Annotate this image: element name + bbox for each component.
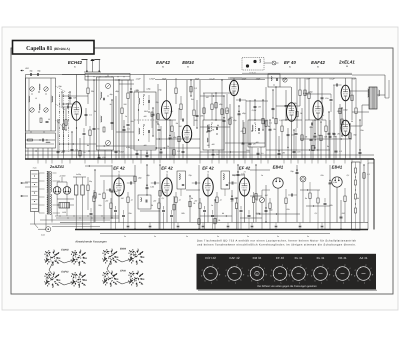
- wire rail y152: [200, 151, 250, 153]
- wire drop e x161: [160, 126, 162, 159]
- wire rail y143: [225, 142, 265, 144]
- svg-text:1M: 1M: [265, 194, 268, 197]
- svg-text:460: 460: [256, 141, 259, 144]
- wire rail y132: [116, 131, 134, 133]
- transformer bottom leads: [45, 215, 47, 230]
- wire rail y96: [62, 95, 88, 97]
- wire drop e x243: [242, 120, 244, 159]
- capacitor EF40 cathode: [295, 133, 298, 135]
- bus lower: [100, 233, 330, 235]
- svg-text:s: s: [299, 281, 300, 284]
- svg-text:0,5M: 0,5M: [252, 109, 257, 112]
- pickup jack: [272, 61, 276, 65]
- resistor EAF42 II anode: [308, 93, 310, 99]
- screen cap b2-1: [122, 215, 125, 217]
- wire rail b2 y190: [300, 189, 320, 191]
- wire drop x70: [69, 92, 71, 104]
- wire rail b2 y218: [240, 217, 262, 219]
- input filter: [103, 193, 105, 199]
- resistor EAF42 anode: [175, 88, 177, 94]
- IF transformer box 1: [134, 92, 156, 150]
- wire rail b2 y166: [85, 165, 112, 167]
- svg-text:2M: 2M: [336, 133, 340, 136]
- svg-text:1M: 1M: [176, 122, 179, 125]
- svg-text:1250: 1250: [62, 211, 66, 214]
- wave switch box: [26, 133, 56, 148]
- svg-text:und keinen Tonabnehmer einschl: und keinen Tonabnehmer einschließlich Ko…: [197, 244, 356, 247]
- tube layout black panel: [197, 254, 377, 290]
- wires rectifier: [57, 181, 67, 183]
- wire drop e x147: [146, 150, 148, 159]
- svg-text:k: k: [327, 279, 328, 282]
- wire drop b2 x256: [255, 165, 257, 222]
- wire drop e x336: [335, 136, 337, 159]
- svg-text:2M: 2M: [272, 128, 276, 131]
- svg-text:h: h: [205, 280, 206, 283]
- svg-text:EF 42: EF 42: [202, 166, 214, 171]
- svg-text:s: s: [235, 281, 236, 284]
- wire drop e x58: [57, 120, 59, 159]
- capacitor cathode b2-2: [162, 210, 165, 212]
- svg-text:0,1: 0,1: [315, 212, 318, 215]
- wire top rail A: [62, 74, 242, 76]
- svg-text:k: k: [305, 279, 306, 282]
- svg-text:40p: 40p: [110, 93, 113, 96]
- grid caps band2: [130, 182, 132, 185]
- wire drop x329: [328, 112, 330, 159]
- bus secondary: [60, 222, 368, 224]
- wire drop x276: [275, 87, 277, 159]
- resistor EB41 b2: [285, 198, 287, 204]
- band separator bus: [25, 158, 374, 160]
- svg-text:EF 42: EF 42: [239, 166, 251, 171]
- wire drop e x321: [320, 122, 322, 159]
- svg-text:5n: 5n: [186, 235, 188, 238]
- wire drop x170: [169, 120, 171, 159]
- svg-text:EM 34: EM 34: [253, 256, 262, 260]
- capacitor cathode b2-4: [240, 210, 243, 212]
- svg-text:200: 200: [104, 200, 108, 203]
- svg-text:2xEL41: 2xEL41: [338, 60, 355, 65]
- tube EL41 a: [341, 85, 350, 101]
- resistor EB41 b load: [344, 196, 346, 202]
- svg-text:s: s: [321, 281, 322, 284]
- resistor cathode b2-4: [235, 203, 237, 209]
- wire drop x297: [296, 78, 298, 128]
- wire drop x322: [321, 78, 323, 120]
- wire rail b2 y175: [232, 174, 244, 176]
- wire drop b2 x190: [189, 196, 191, 222]
- svg-text:h: h: [358, 280, 359, 283]
- wire top rail A2: [242, 74, 352, 76]
- wire drop e x80: [79, 138, 81, 159]
- wire rail b2 y170: [250, 169, 270, 171]
- wire drop e x66: [65, 108, 67, 130]
- wire drop x222: [221, 80, 223, 159]
- capacitor EAF42 bypass: [158, 129, 161, 131]
- svg-text:ECH 42: ECH 42: [205, 256, 216, 260]
- wire drop e x315: [314, 120, 316, 148]
- svg-text:EAF42: EAF42: [156, 60, 170, 65]
- svg-text:b: b: [289, 275, 290, 278]
- voltage selector box: [31, 171, 39, 212]
- wire drop e x250: [249, 100, 251, 159]
- svg-text:k: k: [217, 279, 218, 282]
- wire drop x94: [93, 80, 95, 159]
- svg-text:5n: 5n: [217, 235, 219, 238]
- svg-text:25pF: 25pF: [255, 77, 261, 80]
- svg-text:1M: 1M: [206, 96, 209, 99]
- svg-text:64: 64: [289, 66, 291, 69]
- resistor EAF42 screen: [171, 126, 173, 132]
- svg-text:0,1: 0,1: [347, 174, 350, 177]
- wire drop e x342: [341, 108, 343, 136]
- transformer secondary winding: [50, 172, 51, 193]
- IF transformer box 2: [203, 120, 224, 150]
- svg-text:h: h: [251, 280, 252, 283]
- wire drop e x137: [136, 150, 138, 159]
- svg-text:1,0μF: 1,0μF: [135, 77, 141, 80]
- IF box band2 a: [177, 171, 186, 189]
- wire rail y101: [246, 100, 268, 102]
- IF box 3: [248, 120, 265, 147]
- panel socket EL 41: [292, 267, 306, 281]
- wire rail y127: [200, 126, 230, 128]
- wire rail b2 y176: [100, 175, 135, 177]
- wire drop x131: [130, 80, 132, 159]
- wire drop x340: [339, 104, 341, 159]
- wire drop x216: [215, 93, 217, 120]
- socket pinout r2c4: [137, 273, 138, 274]
- wire drop e x112: [111, 100, 113, 130]
- resistor EB41 load: [269, 203, 271, 209]
- svg-text:0,1: 0,1: [89, 113, 92, 116]
- wire drop b2 x266: [265, 185, 267, 222]
- speaker wires: [377, 94, 385, 96]
- svg-text:g: g: [372, 273, 373, 276]
- wire rail b2 y211: [140, 210, 160, 212]
- svg-text:s: s: [364, 281, 365, 284]
- wire rail y139: [156, 138, 200, 140]
- svg-text:s: s: [343, 281, 344, 284]
- svg-text:5n: 5n: [154, 235, 156, 238]
- wire rail y120: [305, 119, 326, 121]
- tube EF40: [287, 103, 297, 122]
- wire drop x116: [115, 96, 117, 159]
- wire drop e x197: [196, 100, 198, 128]
- svg-text:EF 42: EF 42: [113, 166, 125, 171]
- tube EF42 b2-1: [114, 178, 124, 196]
- wire drop e x124: [123, 120, 125, 159]
- svg-text:71: 71: [118, 171, 120, 174]
- capacitor EB41: [291, 194, 293, 197]
- wire drop b2 x147: [146, 165, 148, 195]
- wire drop x191: [190, 80, 192, 96]
- panel socket EAF 42: [228, 267, 242, 281]
- wire rail y140: [25, 139, 55, 141]
- wire drop x286: [285, 90, 287, 120]
- svg-text:80p: 80p: [37, 70, 40, 73]
- wire drop e x258: [257, 148, 259, 159]
- svg-text:2xAZ41: 2xAZ41: [49, 165, 64, 169]
- svg-text:AZ 41: AZ 41: [359, 256, 367, 260]
- svg-text:0,1μF: 0,1μF: [329, 77, 335, 80]
- svg-text:g: g: [307, 273, 308, 276]
- wire drop b2 x364: [363, 165, 365, 222]
- tube AZ41 a: [53, 187, 61, 195]
- wire drop x255: [254, 100, 256, 120]
- wire drop e x330: [329, 120, 331, 159]
- filter box band2: [138, 195, 151, 209]
- svg-text:k: k: [370, 279, 371, 282]
- tube EF42 b2-4: [239, 178, 249, 196]
- svg-text:0,1μF: 0,1μF: [209, 77, 215, 80]
- svg-text:Das Tischmodell BD 753 A enthä: Das Tischmodell BD 753 A enthält nur ein…: [197, 240, 357, 243]
- wire drop b2 x238: [237, 165, 239, 229]
- wire rail y151: [25, 150, 120, 152]
- svg-text:61: 61: [74, 66, 76, 69]
- svg-text:EB41: EB41: [332, 165, 343, 170]
- resistor EM34 grid: [180, 104, 182, 110]
- terminal strip box: [85, 74, 130, 81]
- wire rail y87: [280, 86, 291, 88]
- wire drop e x174: [173, 132, 175, 159]
- wire rail y139: [300, 138, 352, 140]
- tube triode mid: [230, 80, 239, 95]
- svg-text:0,5M: 0,5M: [256, 212, 261, 215]
- svg-text:k: k: [263, 279, 264, 282]
- switch contacts dotted: [56, 86, 67, 92]
- wires oscillator: [98, 150, 100, 159]
- resistor EF40 anode: [299, 90, 301, 96]
- socket pinout r2c2: [79, 274, 80, 275]
- choke: [59, 203, 70, 209]
- resistor cathode b2-2: [158, 203, 160, 209]
- wires lamp rail: [242, 72, 352, 74]
- svg-text:EAF42: EAF42: [61, 271, 69, 274]
- wire rail y93: [203, 92, 234, 94]
- svg-text:70pF: 70pF: [162, 77, 167, 80]
- svg-text:0,1: 0,1: [171, 110, 174, 113]
- svg-text:EF 40: EF 40: [284, 60, 296, 65]
- tube EF42 b2-2: [162, 178, 172, 196]
- svg-text:200: 200: [152, 200, 156, 203]
- wire drop e x302: [301, 108, 303, 159]
- svg-text:b: b: [333, 275, 334, 278]
- transformer primary winding: [47, 172, 48, 193]
- svg-text:5n: 5n: [277, 235, 279, 238]
- svg-text:0,1: 0,1: [162, 197, 165, 200]
- wire drop e x72: [71, 132, 73, 159]
- resistor ECH42 gridleak: [62, 124, 64, 130]
- wire drop e x273: [272, 90, 274, 118]
- electrolytic capacitors: [75, 185, 78, 195]
- wire rail y84: [119, 83, 134, 85]
- socket pinout r1c2: [79, 252, 80, 253]
- wire rail b2 y196: [250, 195, 262, 197]
- padder area: [118, 80, 120, 159]
- wire rail y112: [352, 111, 369, 113]
- svg-text:b: b: [248, 275, 249, 278]
- wire rail b2 y190: [186, 189, 200, 191]
- wire drop b2 x95: [94, 170, 96, 222]
- wire left vertical: [25, 75, 27, 160]
- svg-text:EL 41: EL 41: [295, 256, 303, 260]
- svg-text:b: b: [201, 275, 202, 278]
- svg-text:1M: 1M: [207, 144, 210, 147]
- capacitor cathode b2-1: [114, 210, 117, 212]
- wire drop b2 x330: [329, 165, 331, 229]
- svg-text:5n: 5n: [307, 235, 309, 238]
- svg-text:120pF: 120pF: [149, 77, 155, 80]
- svg-text:1M: 1M: [121, 197, 124, 200]
- svg-text:2M: 2M: [281, 151, 285, 154]
- socket pinout r1c4: [137, 251, 138, 252]
- svg-text:h: h: [315, 280, 316, 283]
- svg-text:0,1: 0,1: [163, 191, 166, 194]
- screen cap b2-2: [170, 215, 173, 217]
- output transformer: [369, 87, 377, 109]
- wire rail b2 y206: [306, 205, 330, 207]
- svg-text:0,1: 0,1: [367, 173, 370, 176]
- wire drop x204: [203, 93, 205, 120]
- wires IF1: [140, 150, 142, 159]
- capacitor ECH42 grid: [67, 106, 69, 109]
- svg-text:s: s: [257, 281, 258, 284]
- antenna coil box: [26, 78, 56, 131]
- tube ECH42: [72, 102, 82, 121]
- resistor det: [243, 128, 245, 134]
- tube EAF42 II: [313, 101, 323, 120]
- capacitor couplers: [311, 123, 313, 126]
- wire drop x334: [333, 85, 335, 159]
- svg-text:b: b: [354, 275, 355, 278]
- heater rail: [56, 217, 119, 219]
- wire drop e x209: [208, 124, 210, 148]
- svg-text:k: k: [241, 279, 242, 282]
- wire rail y144: [60, 143, 96, 145]
- svg-text:EF40: EF40: [120, 270, 126, 273]
- resistor mid anode: [226, 108, 228, 114]
- svg-text:g: g: [219, 273, 220, 276]
- panel socket EB 41: [336, 267, 350, 281]
- panel socket AZ 41: [357, 267, 371, 281]
- wire rail b2 y216: [200, 215, 232, 217]
- svg-text:460: 460: [212, 143, 215, 146]
- wire rail y104: [62, 103, 76, 105]
- svg-text:Abweichende Fassungen: Abweichende Fassungen: [74, 240, 107, 244]
- svg-text:2x300V: 2x300V: [58, 175, 66, 178]
- svg-text:10nF: 10nF: [306, 77, 311, 80]
- socket pinout r1c3: [111, 251, 112, 252]
- svg-text:30p: 30p: [29, 70, 32, 73]
- wire mid rail: [155, 79, 265, 81]
- svg-text:h: h: [293, 280, 294, 283]
- wire drop x313: [312, 120, 314, 159]
- IF box band2 b: [221, 171, 230, 189]
- socket pinout r1c1: [53, 252, 54, 253]
- wire rail y120: [159, 119, 176, 121]
- resistor ECH42 cathode: [89, 130, 91, 136]
- svg-text:50: 50: [48, 118, 50, 121]
- resistor anode b2-1: [127, 197, 129, 203]
- svg-text:EM34: EM34: [182, 60, 194, 65]
- bus chassis: [75, 229, 368, 231]
- screen cap b2-3: [211, 215, 214, 217]
- wire top rail B: [228, 77, 352, 79]
- filter resistors: [87, 185, 89, 191]
- svg-text:2M: 2M: [341, 212, 345, 215]
- svg-text:Capella 81 (BD 604 A): Capella 81 (BD 604 A): [26, 45, 70, 52]
- svg-text:50pF: 50pF: [195, 77, 200, 80]
- tube EL41 b: [341, 120, 350, 136]
- oscillator coil box: [97, 77, 114, 150]
- svg-text:EM34: EM34: [120, 248, 127, 251]
- transformer leads: [39, 172, 45, 174]
- svg-text:k: k: [349, 279, 350, 282]
- mains input arrows: [21, 182, 25, 184]
- svg-text:h: h: [337, 280, 338, 283]
- svg-text:g: g: [266, 273, 267, 276]
- svg-text:ECH42: ECH42: [61, 249, 69, 252]
- wire drop e x183: [182, 144, 184, 159]
- wire drop e x294: [293, 130, 295, 159]
- svg-text:0,1: 0,1: [322, 114, 325, 117]
- svg-text:2k: 2k: [130, 199, 133, 202]
- wire drop e x213: [212, 150, 214, 159]
- wire drop x158: [157, 84, 159, 124]
- resistor anode b2-3: [216, 197, 218, 203]
- wire rail y148: [130, 147, 200, 149]
- svg-text:2k: 2k: [178, 199, 181, 202]
- svg-text:0,1: 0,1: [182, 137, 185, 140]
- panel socket EL 41: [314, 267, 328, 281]
- wire drop e x153: [152, 108, 154, 136]
- svg-text:2k: 2k: [219, 199, 222, 202]
- svg-text:b: b: [271, 275, 272, 278]
- wire drop b2 x135: [134, 165, 136, 229]
- switch dot columns: [59, 92, 61, 152]
- panel socket ECH 42: [204, 267, 218, 281]
- phone jack: [300, 176, 306, 182]
- svg-text:k: k: [286, 279, 287, 282]
- svg-text:ECH42: ECH42: [68, 60, 83, 65]
- tube EAF42 IF: [162, 101, 172, 120]
- title box Capella: [13, 41, 95, 55]
- wire drop e x270: [269, 120, 271, 159]
- svg-text:460: 460: [144, 144, 147, 147]
- dial lamp terminals: [86, 60, 88, 73]
- divider chain box: [352, 162, 361, 230]
- wire drop x266: [265, 87, 267, 159]
- wire drop e x230: [229, 104, 231, 159]
- socket links: [49, 264, 52, 270]
- svg-text:EL 41: EL 41: [317, 256, 325, 260]
- caps on chassis bus: [127, 225, 130, 227]
- wire rail y146: [96, 145, 155, 147]
- svg-text:EF 42: EF 42: [161, 166, 173, 171]
- svg-text:EF 40: EF 40: [276, 256, 284, 260]
- svg-text:2M: 2M: [97, 193, 101, 196]
- svg-text:2M: 2M: [190, 98, 194, 101]
- wire drop x305: [304, 78, 306, 159]
- capacitor cathode b2-3: [203, 210, 206, 212]
- detector box: [268, 74, 280, 87]
- svg-text:g: g: [329, 273, 330, 276]
- svg-text:EAF42: EAF42: [311, 60, 325, 65]
- B+ vertical: [373, 159, 375, 230]
- wires band2 links: [37, 159, 39, 164]
